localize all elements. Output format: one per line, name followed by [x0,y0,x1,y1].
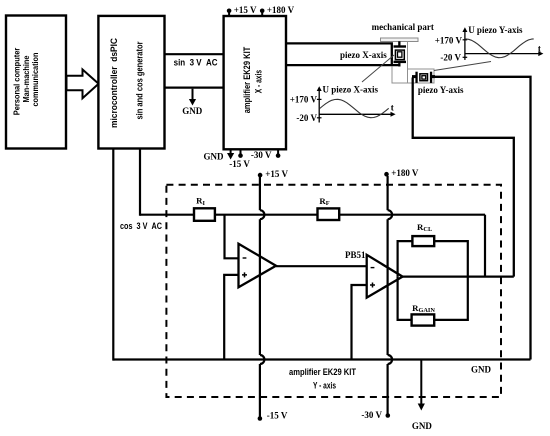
wire: sin upper [165,53,224,55]
plot: U piezo Y-axis [435,25,544,63]
svg-text:-30 V: -30 V [361,410,382,420]
GND arrow (Y section bottom) [412,360,433,431]
supply line +180/-30 with hops [388,176,393,414]
resistor RGAIN [412,314,435,325]
ground arrow under sin wire [182,89,203,117]
block: amplifier EK29 KIT X-axis [224,16,286,149]
wire: piezo Y left terminal to PB51 output [413,78,514,277]
svg-text:GND: GND [182,106,203,116]
svg-text:GND: GND [412,421,433,431]
svg-text:communication: communication [30,52,40,106]
wire: RF feedback leg [484,215,486,277]
pin -30 V (X amp bottom) [251,149,280,160]
svg-text:piezo Y-axis: piezo Y-axis [418,85,464,95]
svg-text:GND: GND [204,152,225,162]
svg-text:+15 V: +15 V [265,169,288,179]
wire: inverting input op-amp U1 [225,215,239,259]
wire: X amp output upper to piezo X [286,43,392,65]
pin +15 V (Y section) [258,169,289,179]
pin +15 V (X amp top) [227,5,257,16]
svg-text:t: t [391,103,394,113]
op-amp U1 [239,244,277,287]
mechanical frame (thin lines) [392,41,434,83]
pin -15 V (X amp bottom) [229,149,250,169]
wire: ground return from dsPIC [112,149,114,361]
wire: X amp output lower to piezo X [286,64,400,66]
block arrow PC to dsPIC [67,70,99,99]
svg-text:mechanical part: mechanical part [372,22,434,32]
wire: piezo Y right terminal to ground rail [432,77,530,360]
pin GND (X amp bottom) [204,149,235,161]
plot: U piezo X-axis [290,85,396,123]
op-amp PB51 [367,255,403,298]
pointer line to U piezo Y-axis plot [434,62,491,71]
svg-text:-15 V: -15 V [267,411,288,421]
svg-text:+170 V: +170 V [290,94,318,104]
svg-text:sin and cos generator: sin and cos generator [134,41,144,119]
RGAIN loop [398,277,468,320]
svg-text:piezo X-axis: piezo X-axis [340,50,387,60]
wire: cos output from dsPIC [139,149,141,216]
svg-text:cos 3 V AC: cos 3 V AC [120,221,163,231]
svg-text:U piezo X-axis: U piezo X-axis [323,85,379,95]
svg-text:amplifier EK29 KIT: amplifier EK29 KIT [242,46,252,113]
svg-text:GND: GND [471,364,492,374]
svg-text:sin 3 V AC: sin 3 V AC [174,58,218,68]
svg-text:-20 V: -20 V [296,113,317,123]
pin +180 V (Y section) [384,168,419,178]
wire: PB51 output [403,276,514,278]
svg-text:amplifier EK29 KIT: amplifier EK29 KIT [289,367,357,377]
RCL loop [398,241,468,277]
svg-text:+170 V: +170 V [435,35,463,45]
wire: non-inverting input PB51 to ground rail [352,285,367,360]
svg-text:-20 V: -20 V [440,52,461,62]
pointer line to U piezo X-axis plot [362,55,394,82]
mechanical part bar [380,38,418,41]
wire: U1 output to PB51 inverting input [276,265,367,267]
wire: sin lower [165,86,224,88]
svg-text:+180 V: +180 V [391,168,419,178]
resistor Ri [194,208,215,221]
piezo Y-axis actuator [412,72,435,83]
dashed box: amplifier EK29 KIT Y-axis [166,185,501,397]
ground rail [113,358,530,360]
pin +180 V (X amp top) [260,5,295,16]
wire: non-inverting input op-amp U1 to ground rail [224,275,238,360]
svg-text:X - axis: X - axis [254,70,264,93]
svg-text:microcontroller dsPIC: microcontroller dsPIC [109,37,119,128]
block: microcontroller dsPIC [98,16,164,149]
svg-text:PB51: PB51 [345,250,366,260]
svg-text:+180 V: +180 V [267,5,295,15]
svg-text:-15 V: -15 V [229,159,250,169]
svg-text:U piezo Y-axis: U piezo Y-axis [468,25,523,35]
svg-text:Y - axis: Y - axis [313,381,336,391]
wire: main input line with Ri and RF [140,214,485,216]
svg-text:t: t [538,43,541,53]
resistor RF [318,208,340,220]
resistor RCL [412,236,434,246]
piezo X-axis actuator [394,41,407,66]
supply line +15/-15 with hops [260,176,265,417]
block: personal computer [6,16,66,149]
svg-text:+15 V: +15 V [234,5,257,15]
svg-text:-30 V: -30 V [251,150,272,160]
